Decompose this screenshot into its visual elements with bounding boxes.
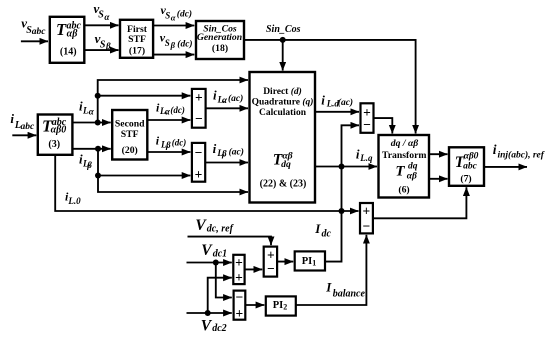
svg-text:dq / αβ: dq / αβ (391, 138, 419, 149)
svg-text:abc: abc (463, 162, 478, 172)
svg-text:T: T (395, 164, 405, 180)
svg-text:STF: STF (128, 34, 146, 45)
svg-text:(6): (6) (398, 185, 409, 196)
svg-text:Direct (d): Direct (d) (263, 86, 302, 97)
svg-text:I: I (325, 280, 332, 295)
svg-text:αβ0: αβ0 (51, 125, 67, 136)
svg-text:αβ0: αβ0 (464, 152, 479, 162)
svg-text:i: i (10, 111, 14, 126)
svg-text:(ac): (ac) (338, 97, 353, 108)
svg-text:αβ: αβ (407, 172, 417, 182)
svg-text:dc, ref: dc, ref (207, 224, 235, 235)
svg-text:+: + (195, 90, 203, 105)
svg-text:i: i (213, 141, 217, 156)
svg-text:(14): (14) (60, 47, 77, 58)
svg-text:+: + (235, 255, 243, 270)
svg-text:dc1: dc1 (213, 248, 227, 259)
svg-text:dq: dq (281, 159, 291, 170)
svg-text:V: V (201, 317, 213, 334)
svg-text:S: S (165, 38, 170, 48)
svg-text:+: + (195, 167, 203, 182)
svg-text:abc: abc (21, 122, 36, 132)
svg-text:Quadrature (q): Quadrature (q) (252, 96, 314, 107)
svg-text:V: V (201, 242, 213, 259)
svg-text:dc2: dc2 (212, 323, 226, 334)
svg-text:+: + (236, 306, 244, 321)
svg-text:+: + (235, 270, 243, 285)
svg-text:inj(abc), ref: inj(abc), ref (498, 149, 545, 160)
svg-text:PI1: PI1 (302, 256, 317, 268)
svg-text:+: + (362, 203, 370, 218)
svg-text:abc: abc (32, 27, 47, 37)
svg-text:β: β (86, 160, 92, 170)
svg-text:Generation: Generation (197, 32, 242, 43)
svg-text:β: β (170, 40, 176, 50)
svg-text:αβ: αβ (67, 29, 79, 40)
svg-text:STF: STF (121, 129, 139, 140)
svg-text:i: i (356, 146, 360, 161)
svg-text:−: − (195, 145, 203, 160)
svg-text:(7): (7) (460, 174, 471, 185)
svg-text:−: − (363, 117, 371, 132)
svg-text:I: I (314, 221, 321, 236)
svg-text:β: β (165, 140, 171, 150)
svg-text:dq: dq (408, 162, 418, 172)
svg-text:S: S (165, 10, 170, 20)
svg-text:S: S (100, 39, 106, 50)
svg-text:balance: balance (333, 289, 366, 300)
svg-text:Calculation: Calculation (259, 108, 307, 118)
svg-text:−: − (267, 261, 275, 276)
svg-text:(dc): (dc) (172, 138, 187, 148)
svg-text:L.q: L.q (359, 153, 373, 163)
svg-text:(3): (3) (48, 139, 60, 150)
svg-text:(22) & (23): (22) & (23) (260, 179, 307, 190)
svg-text:(dc): (dc) (170, 105, 185, 115)
svg-text:β: β (221, 149, 227, 159)
svg-text:β: β (105, 41, 111, 51)
svg-text:i: i (213, 88, 217, 103)
svg-text:T: T (56, 20, 67, 39)
svg-text:Transform: Transform (382, 150, 426, 161)
svg-text:α: α (171, 12, 176, 22)
svg-text:(17): (17) (129, 46, 145, 57)
svg-text:V: V (195, 217, 207, 234)
svg-text:i: i (493, 142, 497, 157)
svg-text:(ac): (ac) (229, 147, 244, 158)
svg-text:S: S (98, 10, 104, 21)
svg-text:−: − (195, 111, 203, 126)
svg-text:dc: dc (322, 229, 332, 240)
svg-text:−: − (236, 290, 244, 305)
svg-text:(dc): (dc) (177, 38, 192, 49)
svg-text:PI2: PI2 (273, 300, 288, 312)
svg-text:L.0: L.0 (67, 196, 81, 206)
svg-text:i: i (321, 93, 325, 108)
svg-text:(ac): (ac) (228, 93, 243, 104)
svg-text:Second: Second (115, 119, 145, 130)
svg-text:(20): (20) (122, 145, 138, 156)
svg-text:(18): (18) (212, 43, 228, 54)
svg-text:Sin_Cos: Sin_Cos (266, 24, 301, 35)
svg-text:−: − (362, 219, 370, 234)
svg-text:(dc): (dc) (177, 9, 192, 20)
